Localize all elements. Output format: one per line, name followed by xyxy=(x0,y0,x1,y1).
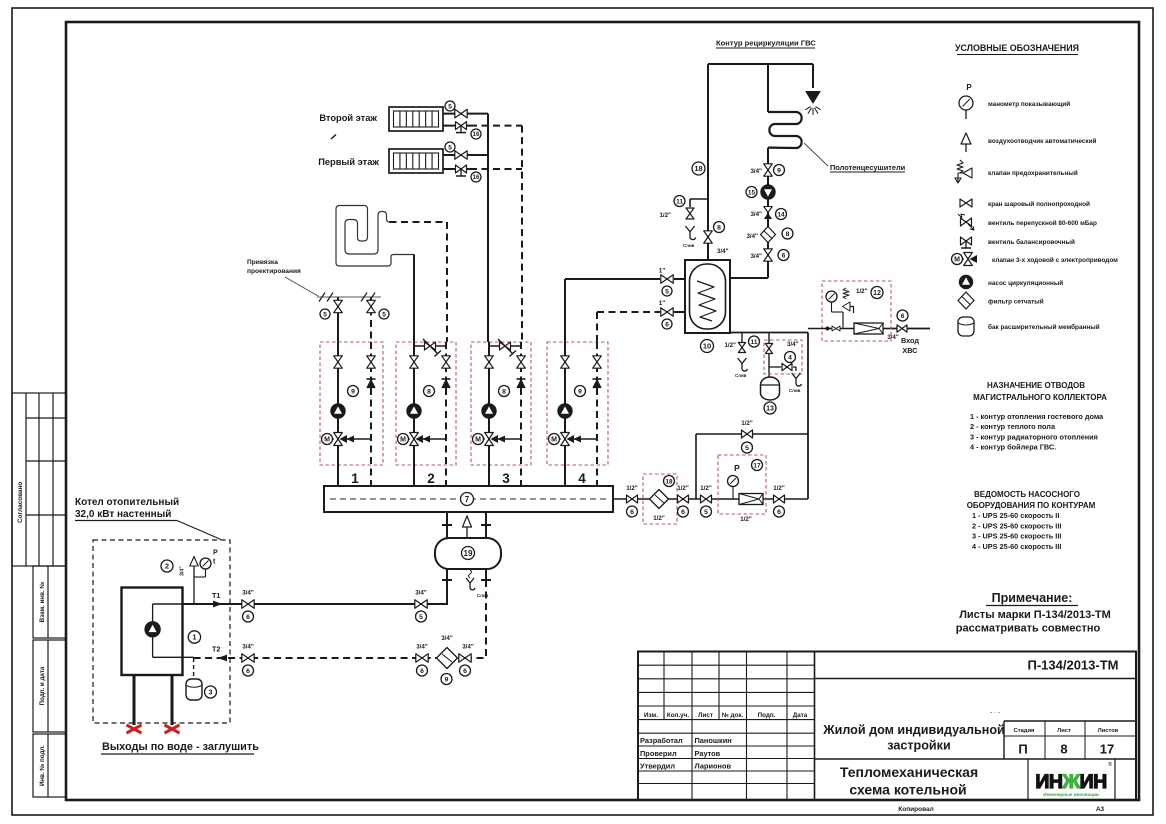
svg-text:Проверил: Проверил xyxy=(640,749,677,758)
svg-text:Листы марки П-134/2013-ТМ: Листы марки П-134/2013-ТМ xyxy=(959,609,1111,621)
svg-text:13: 13 xyxy=(766,406,774,413)
svg-text:№ док.: № док. xyxy=(722,712,744,719)
svg-text:клапан предохранительный: клапан предохранительный xyxy=(988,169,1078,177)
svg-text:18: 18 xyxy=(665,478,673,485)
svg-text:7: 7 xyxy=(465,495,470,504)
svg-text:Инв. № подл.: Инв. № подл. xyxy=(39,745,46,786)
svg-text:8: 8 xyxy=(717,224,721,231)
svg-text:P: P xyxy=(213,550,218,557)
svg-text:1/2": 1/2" xyxy=(626,485,638,492)
svg-text:фильтр сетчатый: фильтр сетчатый xyxy=(988,298,1044,306)
svg-text:1/2": 1/2" xyxy=(741,420,753,427)
svg-text:3/4": 3/4" xyxy=(242,644,254,651)
svg-text:12: 12 xyxy=(873,290,881,297)
svg-text:1/2": 1/2" xyxy=(700,485,712,492)
svg-text:3/4": 3/4" xyxy=(746,233,758,240)
svg-text:6: 6 xyxy=(246,668,250,675)
svg-text:1": 1" xyxy=(659,268,666,275)
svg-text:клапан 3-х ходовой с электропр: клапан 3-х ходовой с электроприводом xyxy=(992,256,1118,264)
svg-text:8: 8 xyxy=(502,388,506,395)
svg-text:застройки: застройки xyxy=(887,739,950,753)
svg-text:5: 5 xyxy=(665,288,669,295)
svg-text:®: ® xyxy=(1108,761,1112,768)
svg-text:6: 6 xyxy=(777,509,781,516)
svg-text:ВЕДОМОСТЬ НАСОСНОГО: ВЕДОМОСТЬ НАСОСНОГО xyxy=(974,490,1080,499)
svg-text:Котел отопительный: Котел отопительный xyxy=(75,497,179,508)
svg-text:4 - UPS 25-60 скорость III: 4 - UPS 25-60 скорость III xyxy=(972,542,1061,551)
svg-text:8: 8 xyxy=(786,231,790,238)
svg-text:Выходы по воде - заглушить: Выходы по воде - заглушить xyxy=(102,741,259,753)
svg-text:1 - контур отопления гостевого: 1 - контур отопления гостевого дома xyxy=(970,412,1104,421)
svg-text:манометр показывающий: манометр показывающий xyxy=(988,100,1070,108)
svg-text:6: 6 xyxy=(782,252,786,259)
svg-text:Контур рециркуляции ГВС: Контур рециркуляции ГВС xyxy=(716,39,816,48)
svg-text:19: 19 xyxy=(464,549,473,558)
svg-text:5: 5 xyxy=(419,614,423,621)
svg-text:9: 9 xyxy=(351,388,355,395)
svg-text:M: M xyxy=(551,437,557,444)
svg-text:3/4": 3/4" xyxy=(180,566,186,576)
svg-text:вентиль перепускной 80-600 мБа: вентиль перепускной 80-600 мБар xyxy=(988,219,1097,227)
svg-text:Подп. и дата: Подп. и дата xyxy=(39,666,46,705)
svg-text:НАЗНАЧЕНИЕ ОТВОДОВ: НАЗНАЧЕНИЕ ОТВОДОВ xyxy=(987,381,1085,390)
svg-text:Слив: Слив xyxy=(735,373,747,378)
svg-text:14: 14 xyxy=(777,211,785,218)
svg-text:3: 3 xyxy=(209,688,213,697)
svg-text:3/4": 3/4" xyxy=(750,168,762,175)
svg-text:18: 18 xyxy=(694,164,702,173)
svg-text:5: 5 xyxy=(448,144,452,151)
svg-text:T2: T2 xyxy=(212,645,220,654)
svg-text:3/4": 3/4" xyxy=(416,644,428,651)
svg-text:T1: T1 xyxy=(212,591,220,600)
svg-text:5: 5 xyxy=(745,445,749,452)
svg-text:2 - контур теплого пола: 2 - контур теплого пола xyxy=(970,422,1056,431)
svg-text:P: P xyxy=(966,83,972,92)
svg-text:17: 17 xyxy=(753,462,761,469)
svg-text:15: 15 xyxy=(748,189,756,196)
svg-text:1": 1" xyxy=(659,300,666,307)
svg-text:Взам. инв. №: Взам. инв. № xyxy=(39,582,46,623)
svg-text:1/2": 1/2" xyxy=(659,212,671,219)
svg-text:1 - UPS 25-60 скорость II: 1 - UPS 25-60 скорость II xyxy=(972,511,1059,520)
svg-text:3 - контур радиаторного отопле: 3 - контур радиаторного отопления xyxy=(970,432,1098,441)
svg-text:3/4": 3/4" xyxy=(750,211,762,218)
svg-text:3/4": 3/4" xyxy=(242,590,254,597)
svg-text:5: 5 xyxy=(323,311,327,318)
svg-text:Первый этаж: Первый этаж xyxy=(318,157,379,167)
svg-text:6: 6 xyxy=(665,321,669,328)
svg-text:3 - UPS 25-60 скорость III: 3 - UPS 25-60 скорость III xyxy=(972,532,1061,541)
svg-text:Изм.: Изм. xyxy=(644,712,658,719)
svg-text:Тепломеханическая: Тепломеханическая xyxy=(840,764,978,780)
svg-text:32,0 кВт настенный: 32,0 кВт настенный xyxy=(75,509,171,520)
svg-text:P: P xyxy=(734,463,740,473)
svg-text:9: 9 xyxy=(445,676,449,683)
svg-text:1/2": 1/2" xyxy=(724,342,736,349)
svg-text:3/4": 3/4" xyxy=(887,334,899,341)
svg-text:6: 6 xyxy=(681,509,685,516)
svg-text:6: 6 xyxy=(246,614,250,621)
svg-text:9: 9 xyxy=(578,388,582,395)
svg-text:Лист: Лист xyxy=(1057,728,1071,734)
svg-text:5: 5 xyxy=(448,103,452,110)
svg-text:Инженерные инновации: Инженерные инновации xyxy=(1043,792,1099,797)
svg-text:П: П xyxy=(1018,742,1027,757)
svg-text:ХВС: ХВС xyxy=(902,346,918,355)
svg-text:Вход: Вход xyxy=(901,336,919,345)
svg-text:Копировал: Копировал xyxy=(898,806,933,813)
svg-text:16: 16 xyxy=(473,174,480,181)
svg-text:Дата: Дата xyxy=(793,712,808,719)
svg-text:3/4": 3/4" xyxy=(787,341,799,348)
svg-text:3/4": 3/4" xyxy=(441,635,453,642)
svg-text:3: 3 xyxy=(502,471,510,486)
svg-text:бак расширительный мембранный: бак расширительный мембранный xyxy=(988,323,1100,331)
svg-text:Разработал: Разработал xyxy=(640,736,683,745)
svg-text:4: 4 xyxy=(578,471,586,486)
svg-text:Привязка: Привязка xyxy=(247,259,278,266)
svg-text:M: M xyxy=(475,437,481,444)
svg-text:3/4": 3/4" xyxy=(750,253,762,260)
svg-text:МАГИСТРАЛЬНОГО КОЛЛЕКТОРА: МАГИСТРАЛЬНОГО КОЛЛЕКТОРА xyxy=(973,393,1107,402)
svg-text:Второй этаж: Второй этаж xyxy=(319,113,377,123)
svg-text:Полотенцесушители: Полотенцесушители xyxy=(830,163,906,172)
svg-text:ИНЖИН: ИНЖИН xyxy=(1035,771,1106,793)
svg-text:2: 2 xyxy=(165,562,169,571)
svg-text:2: 2 xyxy=(427,471,435,486)
svg-text:Паношкин: Паношкин xyxy=(695,736,732,745)
svg-text:Слив: Слив xyxy=(789,388,801,393)
svg-text:1: 1 xyxy=(351,471,359,486)
svg-text:6: 6 xyxy=(463,668,467,675)
svg-text:M: M xyxy=(954,257,960,264)
svg-text:3/4": 3/4" xyxy=(462,644,474,651)
svg-text:Ларионов: Ларионов xyxy=(695,761,732,770)
svg-text:5: 5 xyxy=(382,311,386,318)
svg-text:Стадия: Стадия xyxy=(1014,728,1035,734)
svg-text:4 - контур бойлера ГВС.: 4 - контур бойлера ГВС. xyxy=(970,443,1056,452)
svg-text:вентиль балансировочный: вентиль балансировочный xyxy=(988,238,1075,246)
svg-text:- · -: - · - xyxy=(990,709,1000,716)
svg-text:1: 1 xyxy=(192,633,196,642)
svg-text:2 - UPS 25-60 скорость III: 2 - UPS 25-60 скорость III xyxy=(972,521,1061,530)
svg-text:1/2": 1/2" xyxy=(653,515,665,522)
svg-text:Согласовано: Согласовано xyxy=(17,482,24,523)
svg-text:M: M xyxy=(324,437,330,444)
svg-text:кран шаровый полнопроходной: кран шаровый полнопроходной xyxy=(988,200,1090,208)
svg-text:5: 5 xyxy=(704,509,708,516)
svg-text:11: 11 xyxy=(751,339,758,346)
svg-text:Подп.: Подп. xyxy=(758,712,776,719)
svg-text:проектирования: проектирования xyxy=(247,268,301,275)
svg-text:Слив: Слив xyxy=(477,593,489,598)
svg-text:Слив: Слив xyxy=(683,243,695,248)
svg-text:насос циркуляционный: насос циркуляционный xyxy=(988,279,1063,287)
svg-text:Кол.уч.: Кол.уч. xyxy=(667,712,689,719)
svg-text:УСЛОВНЫЕ ОБОЗНАЧЕНИЯ: УСЛОВНЫЕ ОБОЗНАЧЕНИЯ xyxy=(955,43,1079,53)
svg-text:3/4": 3/4" xyxy=(415,590,427,597)
svg-text:9: 9 xyxy=(777,167,781,174)
svg-text:6: 6 xyxy=(420,668,424,675)
svg-text:рассматривать совместно: рассматривать совместно xyxy=(956,623,1101,635)
svg-text:Листов: Листов xyxy=(1098,728,1119,734)
svg-text:6: 6 xyxy=(901,313,905,320)
svg-text:ОБОРУДОВАНИЯ ПО КОНТУРАМ: ОБОРУДОВАНИЯ ПО КОНТУРАМ xyxy=(967,501,1096,510)
svg-text:Жилой дом индивидуальной: Жилой дом индивидуальной xyxy=(822,723,1005,737)
svg-text:M: M xyxy=(400,437,406,444)
svg-text:1/2": 1/2" xyxy=(677,485,689,492)
svg-text:Примечание:: Примечание: xyxy=(992,591,1073,605)
svg-text:4: 4 xyxy=(788,354,792,361)
svg-text:16: 16 xyxy=(473,131,480,138)
svg-text:8: 8 xyxy=(427,388,431,395)
svg-text:Раутов: Раутов xyxy=(695,749,721,758)
svg-text:8: 8 xyxy=(1060,742,1067,757)
svg-text:11: 11 xyxy=(676,198,683,205)
svg-text:17: 17 xyxy=(1100,742,1114,757)
svg-text:воздухоотводчик автоматический: воздухоотводчик автоматический xyxy=(988,137,1096,145)
svg-text:Лист: Лист xyxy=(698,712,713,719)
svg-text:схема котельной: схема котельной xyxy=(849,782,966,798)
svg-text:Утвердил: Утвердил xyxy=(640,761,675,770)
svg-text:П-134/2013-ТМ: П-134/2013-ТМ xyxy=(1028,658,1119,673)
svg-text:3/4": 3/4" xyxy=(717,248,729,255)
svg-text:1/2": 1/2" xyxy=(773,485,785,492)
svg-text:1/2": 1/2" xyxy=(740,516,752,523)
svg-text:А3: А3 xyxy=(1096,806,1105,813)
svg-text:6: 6 xyxy=(630,509,634,516)
svg-text:1/2": 1/2" xyxy=(856,288,868,295)
svg-text:10: 10 xyxy=(703,342,711,351)
